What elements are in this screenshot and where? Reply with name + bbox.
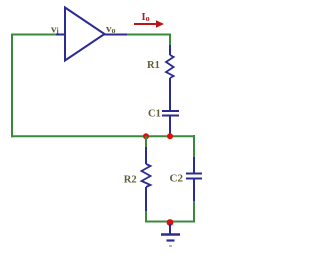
capacitor C2 (186, 174, 202, 179)
label R2 (124, 175, 137, 186)
junction node: C1 bottom connection (red dot) (167, 133, 173, 139)
op-amp U1 (unity-gain buffer triangle) (65, 8, 105, 61)
svg-text:C1: C1 (148, 109, 161, 120)
capacitor C1 (162, 111, 179, 116)
wire: middle horizontal net joining feedback, R2, C1, C2 (green) (11, 135, 194, 137)
label C1 (148, 109, 161, 120)
label vi (op-amp input voltage) (51, 24, 60, 36)
wire: output net horizontal to top-right corner (green) (127, 34, 170, 36)
resistor R2 (142, 164, 151, 187)
svg-text:Io: Io (142, 12, 150, 23)
wire: R2 bottom lead (blue then green) (145, 187, 147, 222)
svg-text:vi: vi (51, 24, 60, 36)
wire: R2 top lead (green then blue) (145, 136, 147, 164)
resistor R1 (166, 55, 174, 78)
svg-text:C2: C2 (170, 173, 184, 185)
svg-text:vo: vo (106, 23, 116, 35)
label R1 (147, 60, 160, 71)
wire: op-amp output lead stub (blue) (104, 34, 128, 36)
svg-text:R2: R2 (124, 175, 137, 186)
wire: bottom horizontal net R2/C2 to ground (green) (145, 221, 195, 223)
label vo (op-amp output voltage) (106, 23, 116, 35)
wire: C2 top lead (blue) (193, 157, 195, 173)
ground (earth symbol) (161, 224, 180, 246)
wire: R1 bottom lead to C1 (blue) (169, 78, 171, 110)
wire: R1 top lead (blue) (169, 45, 171, 55)
wire: op-amp input lead stub (blue) (56, 34, 65, 36)
wire: C1 bottom lead to node (blue) (169, 117, 171, 135)
junction node: ground connection (red dot) (167, 219, 174, 226)
wire: C2 branch from right corner down (green) (193, 135, 195, 158)
arrow: current direction Io (red, pointing right) (134, 20, 164, 28)
wire: top-right corner down toward R1 (green) (169, 34, 171, 47)
svg-text:R1: R1 (147, 60, 160, 71)
wire: C2 bottom lead (blue then green) (193, 180, 195, 223)
label C2 (170, 173, 184, 185)
junction node: R2 top connection (red dot) (143, 133, 149, 139)
wire: feedback net, left vertical (green) (11, 34, 13, 138)
label Io (output current) (142, 12, 150, 23)
wire: input net from feedback node to op-amp input (green horizontal) (12, 34, 57, 36)
